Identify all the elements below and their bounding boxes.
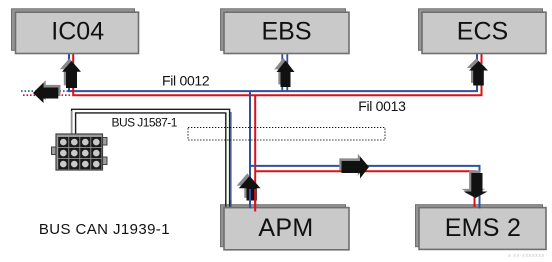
svg-text:EBS: EBS	[262, 17, 312, 45]
svg-text:x xx-xxxxxxx: x xx-xxxxxxx	[508, 253, 545, 259]
svg-text:Fil 0013: Fil 0013	[358, 98, 406, 114]
svg-text:IC04: IC04	[51, 17, 104, 45]
svg-text:APM: APM	[258, 214, 313, 242]
svg-text:BUS CAN J1939-1: BUS CAN J1939-1	[39, 221, 170, 238]
svg-text:EMS 2: EMS 2	[445, 214, 522, 242]
svg-text:BUS J1587-1: BUS J1587-1	[112, 115, 178, 129]
svg-text:ECS: ECS	[457, 17, 508, 45]
svg-text:Fil 0012: Fil 0012	[162, 73, 210, 89]
